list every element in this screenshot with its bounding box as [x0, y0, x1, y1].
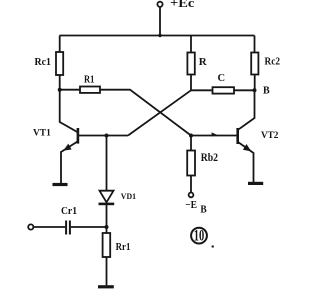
svg-text:Rc1: Rc1: [35, 56, 51, 68]
svg-text:−E: −E: [185, 199, 197, 211]
svg-text:VD1: VD1: [121, 191, 136, 201]
svg-text:Rb2: Rb2: [201, 152, 219, 164]
svg-text:Cr1: Cr1: [61, 206, 77, 217]
svg-text:Rc2: Rc2: [265, 56, 281, 67]
svg-text:+Ec: +Ec: [170, 0, 195, 10]
svg-text:B: B: [200, 205, 206, 216]
svg-text:C: C: [218, 73, 226, 84]
svg-text:B: B: [263, 86, 270, 97]
svg-text:R1: R1: [84, 74, 94, 85]
svg-text:Rr1: Rr1: [116, 242, 131, 253]
svg-text:R: R: [199, 56, 208, 68]
svg-text:10: 10: [194, 228, 205, 245]
svg-text:VT1: VT1: [33, 128, 51, 138]
svg-text:VT2: VT2: [261, 130, 279, 140]
